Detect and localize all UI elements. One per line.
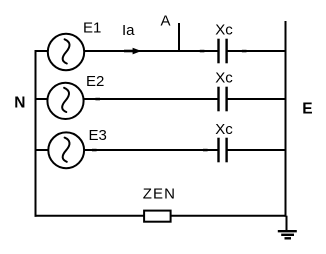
- wire grip row1 right of capacitor: [242, 50, 247, 53]
- node A tick mark: [178, 23, 180, 51]
- AC source E2: [47, 83, 83, 119]
- svg-text:E: E: [302, 101, 312, 118]
- svg-text:E2: E2: [86, 73, 104, 90]
- wire row2 after capacitor: [228, 98, 286, 100]
- impedance ZEN (rectangle): [144, 211, 171, 222]
- svg-text:Xc: Xc: [215, 121, 233, 138]
- capacitor Xc row1: [219, 39, 227, 64]
- wire grip row2 right of source: [95, 98, 100, 101]
- wire row3 left: N bus to E3 source: [35, 149, 49, 151]
- wire grip row3 right of source: [92, 149, 97, 152]
- AC source E3: [48, 132, 84, 168]
- wire bottom left: N bus to ZEN: [35, 215, 145, 217]
- capacitor Xc row2: [219, 87, 227, 112]
- svg-text:A: A: [161, 13, 171, 30]
- wire row1 right: E1 source to capacitor and bus E: [84, 50, 218, 52]
- svg-text:ZEN: ZEN: [143, 185, 176, 202]
- wire row1 left: N bus to E1 source: [35, 50, 49, 52]
- bus E (right vertical wire): [285, 21, 287, 217]
- capacitor Xc row3: [219, 138, 227, 163]
- wire grip row3 left of capacitor: [203, 149, 208, 152]
- wire row3 middle: E3 to capacitor: [84, 149, 218, 151]
- wire row3 after capacitor: [228, 149, 286, 151]
- ground: [278, 216, 297, 239]
- svg-text:E3: E3: [89, 127, 107, 144]
- svg-text:E1: E1: [83, 19, 101, 36]
- svg-text:Xc: Xc: [215, 69, 233, 86]
- wire bottom right: ZEN to ground junction: [171, 215, 287, 217]
- AC source E1: [48, 34, 84, 70]
- wire row2 middle: E2 to capacitor: [84, 98, 218, 100]
- svg-text:Ia: Ia: [122, 22, 135, 39]
- wire grip row1 left of capacitor: [200, 50, 205, 53]
- current arrow Ia on row1: [124, 48, 141, 55]
- svg-text:Xc: Xc: [215, 21, 233, 38]
- wire row1 after capacitor: [228, 50, 286, 52]
- svg-text:N: N: [14, 94, 25, 111]
- node N bus (left vertical wire): [35, 50, 37, 217]
- wire row2 left: N bus to E2 source: [35, 98, 49, 100]
